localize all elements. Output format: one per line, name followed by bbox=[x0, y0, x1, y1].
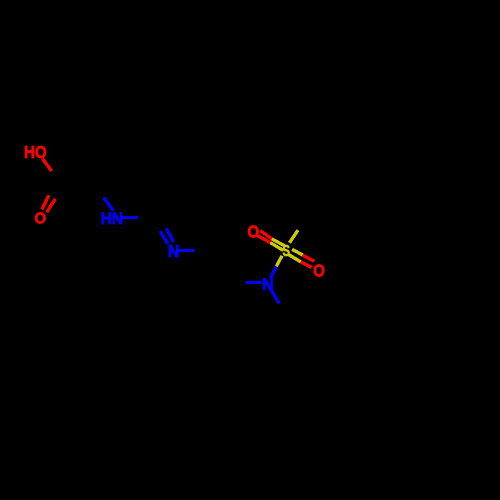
svg-text:O: O bbox=[248, 222, 260, 242]
bond N4-S, yellow half bbox=[276, 256, 282, 266]
svg-text:O: O bbox=[313, 260, 325, 280]
bond S1-CH3, yellow half bbox=[289, 230, 298, 243]
bond C2=N3 double bond, blue halves bbox=[160, 231, 168, 244]
bond S1=O4 double bond lower-right, yellow halves bbox=[292, 249, 303, 255]
bond O1-C carboxyl, red half bbox=[43, 159, 52, 172]
bond S1=O3 double bond upper-left, yellow halves bbox=[272, 239, 286, 246]
bond N(H)-C2, blue half bbox=[121, 216, 138, 219]
bond CH2-N(H), blue half bbox=[104, 198, 114, 211]
bond S1=O3 double bond upper-left, red halves bbox=[260, 231, 272, 239]
svg-text:N: N bbox=[168, 241, 180, 261]
bond N4-CH2, blue half bbox=[270, 287, 280, 303]
bond S1=O4 double bond lower-right, red halves bbox=[303, 255, 315, 261]
bond N4-S, blue half bbox=[271, 266, 277, 278]
svg-text:HN: HN bbox=[101, 209, 123, 228]
svg-text:O: O bbox=[35, 211, 47, 228]
bond C=O2 double bond, red halves bbox=[42, 195, 49, 209]
bond N3-C, blue half bbox=[178, 249, 194, 252]
bond CH3-N4, blue half bbox=[246, 281, 263, 284]
